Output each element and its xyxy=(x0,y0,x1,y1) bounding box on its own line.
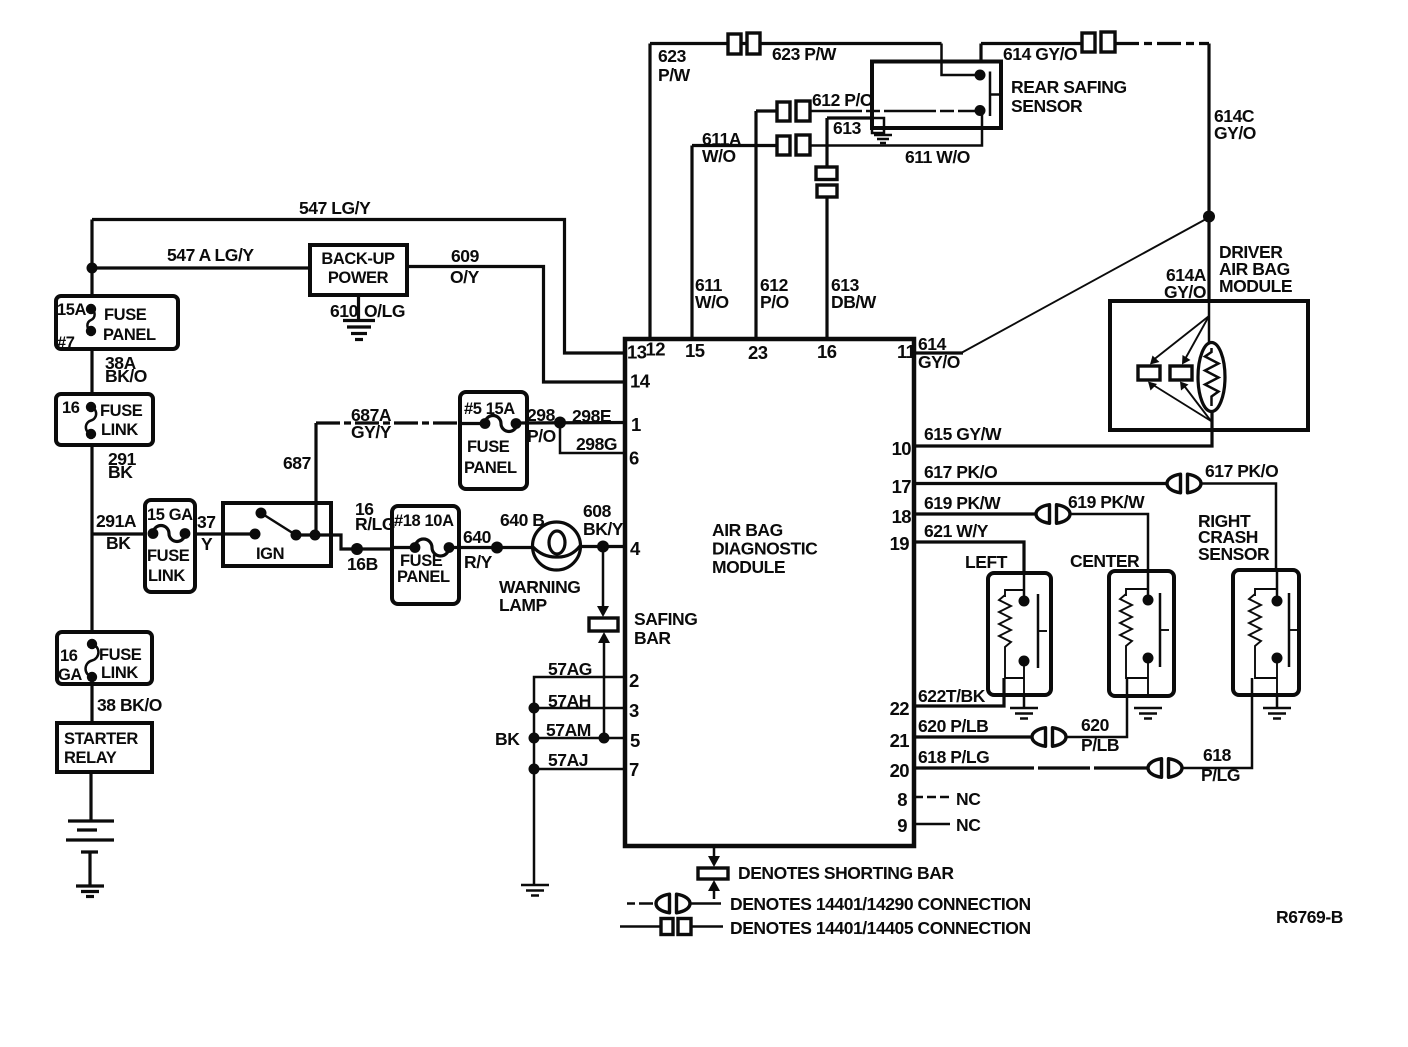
svg-text:LEFT: LEFT xyxy=(965,552,1008,572)
svg-text:15 GA: 15 GA xyxy=(147,506,193,524)
svg-text:4: 4 xyxy=(630,538,641,559)
wire 623 into rear safing sensor xyxy=(942,44,981,76)
svg-text:#18 10A: #18 10A xyxy=(394,512,454,530)
wire main battery feed vertical xyxy=(90,220,93,297)
node 547A junction xyxy=(87,263,98,274)
ground tab (rear sensor) xyxy=(872,118,884,133)
wire 614 diagonal to pin 11 xyxy=(962,219,1207,353)
wire battery to ground xyxy=(88,852,91,885)
wire 547 LG/Y xyxy=(92,220,625,354)
svg-text:PANEL: PANEL xyxy=(464,459,517,477)
fuse link 15 GA xyxy=(145,500,195,592)
svg-text:547 LG/Y: 547 LG/Y xyxy=(299,198,371,218)
svg-text:SENSOR: SENSOR xyxy=(1011,96,1083,116)
safing bar xyxy=(589,618,618,631)
fuse F7 xyxy=(86,304,96,314)
left crash sensor xyxy=(988,573,1051,695)
svg-text:13: 13 xyxy=(627,342,647,363)
svg-text:BACK-UP: BACK-UP xyxy=(321,250,395,268)
svg-text:DENOTES SHORTING BAR: DENOTES SHORTING BAR xyxy=(738,863,954,883)
wire 547A LG/Y xyxy=(92,266,310,269)
svg-text:619 PK/W: 619 PK/W xyxy=(924,493,1001,513)
svg-text:WARNING: WARNING xyxy=(499,577,580,597)
svg-text:O/LG: O/LG xyxy=(364,301,405,321)
connector 14401/14290 (617) xyxy=(1167,474,1201,493)
svg-text:GY/Y: GY/Y xyxy=(351,422,392,442)
svg-text:614 GY/O: 614 GY/O xyxy=(1003,44,1077,64)
wire 38 BK/O xyxy=(90,684,93,723)
wire 291 BK xyxy=(90,445,93,632)
connector 14401/14290 (619) xyxy=(1036,505,1070,524)
wire 57AH xyxy=(534,707,625,710)
wire 614C GY/O xyxy=(1115,42,1209,45)
svg-text:23: 23 xyxy=(748,342,768,363)
svg-text:298E: 298E xyxy=(572,406,611,426)
svg-text:R/Y: R/Y xyxy=(464,552,493,572)
wire 611 W/O vertical (pin 15) xyxy=(690,146,693,340)
svg-text:GY/O: GY/O xyxy=(1214,123,1256,143)
svg-text:298G: 298G xyxy=(576,434,617,454)
driver air bag module xyxy=(1110,301,1308,430)
ground (57A harness) xyxy=(521,885,549,896)
shorting clip fan xyxy=(1152,316,1209,361)
wire 610 O/LG xyxy=(357,295,360,319)
svg-text:19: 19 xyxy=(890,533,910,554)
wire 623 P/W top xyxy=(650,42,942,45)
svg-text:RELAY: RELAY xyxy=(64,749,117,767)
rear sensor contacts xyxy=(975,70,986,81)
wire 623 P/W vertical xyxy=(648,44,651,340)
svg-text:DIAGNOSTIC: DIAGNOSTIC xyxy=(712,539,818,559)
svg-text:P/O: P/O xyxy=(527,426,556,446)
svg-text:614: 614 xyxy=(918,334,947,354)
svg-text:547 A LG/Y: 547 A LG/Y xyxy=(167,245,254,265)
svg-text:38 BK/O: 38 BK/O xyxy=(97,695,162,715)
fuse link 16 GA xyxy=(57,632,152,684)
svg-text:MODULE: MODULE xyxy=(1219,276,1292,296)
ground (left sensor) xyxy=(1010,695,1038,719)
wire 611A W/O xyxy=(692,144,776,147)
svg-text:612 P/O: 612 P/O xyxy=(812,90,873,110)
squib feed wire xyxy=(1208,301,1211,344)
svg-text:P/LB: P/LB xyxy=(1081,735,1119,755)
svg-text:57AJ: 57AJ xyxy=(548,750,588,770)
wire 38A BK/O xyxy=(90,349,93,394)
svg-text:618 P/LG: 618 P/LG xyxy=(918,747,989,767)
ground (back-up power) xyxy=(343,321,375,340)
wire 611 W/O to sensor xyxy=(810,111,982,146)
svg-text:R6769-B: R6769-B xyxy=(1276,907,1343,927)
wire 614 GY/O from sensor xyxy=(979,44,982,63)
back-up power module xyxy=(310,245,407,295)
svg-text:SAFING: SAFING xyxy=(634,609,697,629)
wire to battery xyxy=(89,772,92,821)
wire 37 Y xyxy=(195,532,255,535)
wire 620 P/LB to center sensor xyxy=(1065,678,1127,737)
wire 613 DB/W vertical (pin 16) xyxy=(825,118,828,167)
svg-text:57AH: 57AH xyxy=(548,691,591,711)
svg-text:BK/O: BK/O xyxy=(105,366,147,386)
svg-text:BK: BK xyxy=(495,729,520,749)
svg-text:LINK: LINK xyxy=(101,664,138,682)
svg-text:11: 11 xyxy=(897,341,916,362)
svg-text:12: 12 xyxy=(646,339,666,360)
svg-text:#7: #7 xyxy=(57,334,75,352)
legend 14401/14405 connector xyxy=(620,925,661,928)
svg-text:8: 8 xyxy=(897,789,907,810)
wire 612 into sensor xyxy=(810,110,980,113)
svg-text:FUSE: FUSE xyxy=(104,306,147,324)
svg-text:LAMP: LAMP xyxy=(499,595,548,615)
fuse link element xyxy=(148,528,159,539)
wire 613 to sensor ground tab xyxy=(827,116,874,119)
fuse link element xyxy=(86,402,96,412)
svg-text:LINK: LINK xyxy=(101,421,138,439)
svg-text:3: 3 xyxy=(629,700,639,721)
svg-text:14: 14 xyxy=(630,371,651,392)
svg-text:BK/Y: BK/Y xyxy=(583,519,624,539)
wire 621 W/Y xyxy=(914,542,1024,574)
wire 618 P/LG xyxy=(914,766,1149,769)
svg-text:1: 1 xyxy=(631,414,641,435)
wire 619 PK/W xyxy=(914,512,1037,515)
svg-text:W/O: W/O xyxy=(695,292,729,312)
shorting clip 1 xyxy=(1138,366,1160,380)
svg-text:7: 7 xyxy=(629,759,639,780)
svg-text:REAR SAFING: REAR SAFING xyxy=(1011,77,1127,97)
svg-text:622T/BK: 622T/BK xyxy=(918,686,986,706)
right crash sensor xyxy=(1233,570,1299,695)
connector 14401/14290 (620) xyxy=(1032,728,1066,747)
connector 14401/14290 (618) xyxy=(1148,759,1182,778)
svg-text:687: 687 xyxy=(283,453,311,473)
svg-text:298: 298 xyxy=(527,405,556,425)
connector 14401/14405 (623) xyxy=(728,33,760,54)
svg-text:FUSE: FUSE xyxy=(99,646,142,664)
wire 687A GY/Y xyxy=(316,421,460,424)
svg-text:618: 618 xyxy=(1203,745,1232,765)
fuse link element xyxy=(87,639,97,649)
svg-text:NC: NC xyxy=(956,815,981,835)
svg-text:AIR BAG: AIR BAG xyxy=(712,520,783,540)
svg-text:O/Y: O/Y xyxy=(450,267,480,287)
wire 617 PK/O xyxy=(914,482,1168,485)
svg-text:640: 640 xyxy=(463,527,492,547)
connector 14401/14405 (613, vertical) xyxy=(816,167,837,197)
wire 612 P/O top xyxy=(756,109,777,112)
svg-text:MODULE: MODULE xyxy=(712,557,785,577)
svg-text:608: 608 xyxy=(583,501,612,521)
wire 687 xyxy=(314,423,317,533)
wire 291A BK xyxy=(92,532,145,535)
warning lamp xyxy=(533,522,581,570)
pin 8 NC xyxy=(914,796,950,799)
ground (battery) xyxy=(76,886,104,897)
wire 617 PK/O to right sensor xyxy=(1200,484,1276,572)
svg-text:FUSE: FUSE xyxy=(467,438,510,456)
svg-text:21: 21 xyxy=(890,730,910,751)
svg-text:620: 620 xyxy=(1081,715,1110,735)
svg-text:P/W: P/W xyxy=(658,65,691,85)
svg-text:640 B: 640 B xyxy=(500,510,544,530)
svg-text:609: 609 xyxy=(451,246,480,266)
svg-text:PANEL: PANEL xyxy=(103,326,156,344)
svg-text:LINK: LINK xyxy=(148,567,185,585)
wire 57AJ xyxy=(534,768,625,771)
svg-text:DENOTES 14401/14405 CONNECTION: DENOTES 14401/14405 CONNECTION xyxy=(730,918,1031,938)
wire 57AG xyxy=(534,677,625,885)
svg-text:57AM: 57AM xyxy=(546,720,591,740)
fuse F5 xyxy=(460,422,485,425)
pin 9 NC xyxy=(914,823,950,826)
svg-text:611 W/O: 611 W/O xyxy=(905,147,970,167)
wire 620 P/LB xyxy=(914,735,1033,738)
svg-text:16: 16 xyxy=(817,341,837,362)
fuse panel #5 15A xyxy=(460,392,527,489)
node 614 junction xyxy=(1203,211,1215,223)
svg-text:623: 623 xyxy=(658,46,687,66)
shorting clip 2 xyxy=(1170,366,1192,380)
connector 14401/14405 (611) xyxy=(777,135,810,155)
svg-text:16: 16 xyxy=(60,647,78,665)
svg-text:IGN: IGN xyxy=(256,545,284,563)
connector 14401/14405 (612) xyxy=(777,101,810,121)
svg-text:DB/W: DB/W xyxy=(831,292,877,312)
svg-text:623 P/W: 623 P/W xyxy=(772,44,837,64)
svg-text:W/O: W/O xyxy=(702,146,736,166)
wire 615 GY/W xyxy=(914,411,1212,446)
ground (center sensor) xyxy=(1134,708,1162,719)
ignition switch IGN xyxy=(223,503,331,566)
svg-text:P/LG: P/LG xyxy=(1201,765,1240,785)
ground (right sensor) xyxy=(1263,695,1291,719)
connector 14401/14405 (614) xyxy=(1082,32,1115,52)
svg-text:17: 17 xyxy=(892,476,912,497)
svg-text:16: 16 xyxy=(62,399,80,417)
svg-text:FUSE: FUSE xyxy=(147,547,190,565)
safing bar arrow from pin 4 xyxy=(602,547,605,610)
wire 640 R/Y xyxy=(449,546,533,549)
fuse panel #7 xyxy=(56,296,178,349)
svg-text:BK: BK xyxy=(108,462,133,482)
svg-text:22: 22 xyxy=(890,698,910,719)
svg-text:PANEL: PANEL xyxy=(397,568,450,586)
svg-text:37: 37 xyxy=(197,512,216,532)
wire 619 PK/W to center sensor xyxy=(1069,514,1148,572)
svg-text:GA: GA xyxy=(58,666,82,684)
center crash sensor xyxy=(1109,571,1174,696)
svg-text:GY/O: GY/O xyxy=(918,352,960,372)
legend shorting bar xyxy=(713,846,716,860)
svg-text:Y: Y xyxy=(201,534,213,554)
svg-text:GY/O: GY/O xyxy=(1164,282,1206,302)
svg-text:CENTER: CENTER xyxy=(1070,551,1140,571)
svg-text:620 P/LB: 620 P/LB xyxy=(918,716,988,736)
air bag diagnostic module U1 xyxy=(625,339,914,846)
rear safing sensor xyxy=(872,62,1001,129)
svg-text:617 PK/O: 617 PK/O xyxy=(1205,461,1278,481)
svg-text:10: 10 xyxy=(892,438,912,459)
svg-text:9: 9 xyxy=(897,815,907,836)
wire 618 P/LG to right sensor xyxy=(1181,678,1252,768)
wire 298G xyxy=(560,423,625,454)
svg-text:SENSOR: SENSOR xyxy=(1198,544,1270,564)
wire 612 P/O vertical (pin 23) xyxy=(754,111,757,339)
svg-text:617 PK/O: 617 PK/O xyxy=(924,462,997,482)
svg-text:2: 2 xyxy=(629,670,639,691)
wire 57AM xyxy=(534,737,625,740)
svg-text:BK: BK xyxy=(106,533,131,553)
svg-text:P/O: P/O xyxy=(760,292,789,312)
svg-text:15: 15 xyxy=(685,340,705,361)
svg-text:615 GY/W: 615 GY/W xyxy=(924,424,1002,444)
battery xyxy=(66,821,114,852)
svg-text:619 PK/W: 619 PK/W xyxy=(1068,492,1145,512)
svg-text:621 W/Y: 621 W/Y xyxy=(924,521,989,541)
wire 614 GY/O at pin 11 xyxy=(914,351,963,354)
svg-text:DENOTES 14401/14290 CONNECTION: DENOTES 14401/14290 CONNECTION xyxy=(730,894,1031,914)
svg-text:57AG: 57AG xyxy=(548,659,592,679)
starter relay xyxy=(57,723,152,772)
svg-text:POWER: POWER xyxy=(328,269,389,287)
svg-text:16B: 16B xyxy=(347,554,378,574)
svg-text:613: 613 xyxy=(833,118,862,138)
wire 608 BK/Y xyxy=(580,545,625,548)
wire 16B R/LG xyxy=(331,535,392,549)
svg-text:610: 610 xyxy=(330,301,359,321)
fuse F18 xyxy=(392,546,415,549)
svg-text:STARTER: STARTER xyxy=(64,730,138,748)
wire 609 O/Y xyxy=(407,267,625,383)
svg-text:291A: 291A xyxy=(96,511,137,531)
wire 298 P/O xyxy=(516,421,625,425)
legend 14401/14290 connector xyxy=(627,902,661,905)
svg-text:5: 5 xyxy=(630,730,640,751)
clip return wires xyxy=(1150,383,1211,421)
svg-text:18: 18 xyxy=(892,506,912,527)
fuse link 16 xyxy=(56,394,153,445)
wire 622 T/BK xyxy=(914,678,1004,706)
fuse panel #18 10A xyxy=(392,506,459,604)
svg-text:20: 20 xyxy=(890,760,910,781)
squib (driver air bag) xyxy=(1198,343,1225,412)
svg-text:15A: 15A xyxy=(57,301,87,319)
svg-text:6: 6 xyxy=(629,448,639,469)
svg-text:R/LG: R/LG xyxy=(355,514,395,534)
svg-text:NC: NC xyxy=(956,789,981,809)
svg-text:FUSE: FUSE xyxy=(100,402,143,420)
svg-text:BAR: BAR xyxy=(634,628,671,648)
